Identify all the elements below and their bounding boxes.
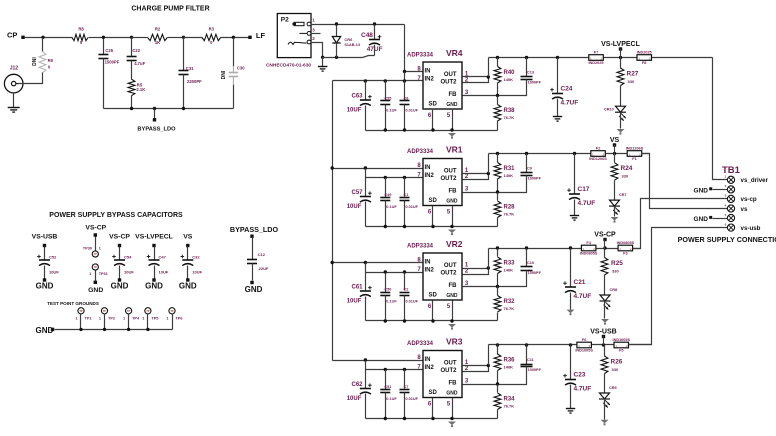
capacitor C51 0.1UF — [380, 385, 397, 401]
junction P2 ground — [321, 56, 324, 59]
junction VR4 IN — [403, 70, 406, 73]
svg-text:4.7UF: 4.7UF — [574, 386, 592, 393]
test point TP5 — [145, 308, 151, 314]
wire VR1 GND pin5 — [452, 206, 454, 227]
wire C12 to GND pin — [252, 264, 254, 281]
wire rail to C11 — [526, 345, 528, 365]
wire VS-CP pin to C54 — [119, 247, 121, 261]
svg-text:GND: GND — [446, 102, 458, 108]
pin VS-USB — [602, 335, 605, 338]
svg-text:330: 330 — [628, 79, 635, 84]
wire VR2 FB — [463, 286, 498, 288]
wire BYPASS_LDO pin to C12 — [252, 238, 254, 260]
svg-text:TP: TP — [170, 309, 174, 313]
svg-text:4.7UF: 4.7UF — [561, 100, 579, 107]
svg-text:5: 5 — [447, 210, 451, 216]
wire P2 pin3 stub — [311, 33, 321, 35]
svg-text:VR1: VR1 — [446, 145, 463, 155]
svg-text:1: 1 — [75, 317, 77, 321]
svg-text:4.7UF: 4.7UF — [578, 200, 596, 207]
fuse F7 IND2025 — [589, 55, 604, 61]
svg-text:VS-CP: VS-CP — [594, 232, 616, 239]
resistor R8 — [72, 27, 88, 46]
wire CR10 to ground — [620, 113, 622, 129]
capacitor C30 (DNI) — [221, 66, 245, 85]
junction VR2 OUT node — [487, 266, 490, 269]
fuse F4 IND0805S — [581, 245, 596, 251]
wire C23 to ground — [570, 385, 572, 409]
wire node to C22 — [131, 38, 133, 57]
svg-text:VR2: VR2 — [446, 239, 463, 249]
svg-text:1: 1 — [465, 262, 469, 268]
wire C13 down to FB — [498, 80, 527, 96]
label TP2 — [99, 317, 115, 321]
svg-text:VS: VS — [610, 137, 620, 144]
wire to R2 — [132, 37, 148, 39]
junction VR3 IN cap column — [364, 358, 367, 361]
pin number 2 VR4 — [465, 78, 469, 84]
svg-text:OUT: OUT — [444, 361, 457, 367]
svg-text:5: 5 — [725, 213, 727, 217]
pin number 5 VR3 — [447, 402, 451, 408]
ground C24 — [553, 117, 562, 122]
svg-text:TP: TP — [79, 309, 83, 313]
wire VR1 pin8 to pin7 rail — [365, 169, 367, 178]
svg-text:0.01UF: 0.01UF — [406, 300, 419, 304]
LED CR7 — [609, 200, 620, 215]
wire VR3 pin8 rail — [333, 360, 423, 362]
ground VR3 — [448, 422, 456, 428]
junction R5 bottom — [130, 107, 133, 110]
LED CR8 — [600, 295, 611, 310]
svg-text:LF: LF — [256, 31, 266, 40]
svg-text:1000PF: 1000PF — [528, 81, 542, 85]
svg-text:76.7K: 76.7K — [504, 404, 515, 409]
svg-text:C31: C31 — [186, 66, 194, 71]
wire CR8 to ground — [604, 301, 606, 319]
junction VR1 0.1uF top — [384, 176, 387, 179]
terminal TB1-1 — [727, 176, 734, 183]
junction TP1 — [79, 328, 82, 331]
resistor R33 140K — [494, 257, 515, 274]
wire CR7 to ground — [614, 207, 616, 217]
svg-text:4.7UF: 4.7UF — [574, 293, 592, 300]
node LF label — [256, 31, 266, 40]
wire VR2 output rail VS-CP — [489, 248, 641, 250]
label F8 — [642, 61, 646, 65]
junction VR1 bottom 0.1uF — [384, 225, 387, 228]
capacitor C48 47UF — [361, 32, 383, 53]
svg-text:FB: FB — [449, 380, 458, 386]
svg-text:VS-USB: VS-USB — [590, 329, 616, 336]
wire VR1 bottom ground rail — [366, 226, 498, 228]
label IND0805S left — [580, 251, 598, 255]
wire VS-LVPECL pin to C47 — [154, 247, 156, 261]
svg-text:GND: GND — [245, 285, 263, 294]
pin number 1 VR4 — [465, 71, 469, 77]
svg-text:C24: C24 — [561, 86, 573, 93]
ground P2 — [318, 67, 328, 72]
svg-text:GND: GND — [179, 282, 197, 291]
junction C31 top — [182, 36, 185, 39]
wire VR1 OUT2 — [463, 174, 489, 180]
svg-text:R34: R34 — [504, 397, 516, 403]
svg-text:BYPASS_LDO: BYPASS_LDO — [230, 225, 279, 234]
svg-text:2: 2 — [312, 36, 315, 41]
junction VR3 bottom 0.1uF — [384, 417, 387, 420]
wire TP4 to rail — [128, 314, 130, 330]
svg-text:CR8: CR8 — [610, 288, 618, 292]
ground C17 — [570, 216, 579, 221]
svg-text:R2: R2 — [155, 27, 161, 32]
svg-text:IND2025: IND2025 — [637, 50, 652, 54]
svg-text:R38: R38 — [504, 108, 516, 114]
net label VS — [610, 137, 620, 144]
junction VR4 10uF top — [364, 79, 367, 82]
junction VR2 FB node — [496, 285, 499, 288]
svg-text:6: 6 — [725, 222, 727, 226]
junction TP4 — [127, 328, 130, 331]
net label GND TB1-2 — [694, 188, 709, 195]
svg-text:1: 1 — [312, 18, 315, 23]
wire rail to R24 — [614, 154, 616, 163]
svg-text:TP: TP — [127, 309, 131, 313]
pin number 3 VR2 — [465, 281, 469, 287]
label CR9 — [609, 386, 617, 390]
svg-text:C61: C61 — [352, 285, 364, 291]
junction C24 top — [556, 56, 559, 59]
svg-text:TP6: TP6 — [176, 317, 183, 321]
svg-text:TP30: TP30 — [83, 247, 92, 251]
junction VR3 SD bottom — [431, 417, 434, 420]
svg-text:CR7: CR7 — [619, 193, 627, 197]
wire VR1 to C57 — [365, 178, 367, 197]
junction net VS-USB — [602, 343, 605, 346]
wire C61 to bottom rail — [365, 297, 367, 321]
svg-text:3: 3 — [465, 378, 469, 384]
svg-text:6: 6 — [428, 113, 432, 119]
svg-text:6: 6 — [428, 210, 432, 216]
svg-text:TEST POINT GROUNDS: TEST POINT GROUNDS — [47, 301, 99, 306]
resistor R32 76.7K — [494, 296, 515, 313]
svg-text:GND: GND — [446, 199, 458, 205]
wire VS to TB1 vs — [642, 154, 728, 209]
svg-text:R31: R31 — [504, 166, 516, 172]
wire VR4 OUT — [463, 76, 489, 78]
pin number P2-1 — [312, 18, 315, 23]
wire rail to R31 — [497, 154, 499, 163]
capacitor C63 10UF — [347, 94, 372, 114]
ground J12 — [8, 108, 20, 113]
capacitor C32 10UF — [181, 255, 203, 275]
terminal TB1-4 — [727, 205, 734, 212]
svg-text:POWER SUPPLY BYPASS CAPACITORS: POWER SUPPLY BYPASS CAPACITORS — [49, 212, 183, 219]
wire FB to R32 — [497, 287, 499, 296]
label IND0805S right — [617, 241, 635, 245]
svg-text:330: 330 — [622, 174, 629, 179]
resistor R34 76.7K — [494, 393, 515, 410]
wire C11 down to FB — [498, 367, 527, 385]
svg-text:3: 3 — [465, 186, 469, 192]
title: POWER SUPPLY CONNECTION — [678, 235, 776, 244]
label IND1206S right — [626, 146, 644, 150]
wire input to CR6 — [336, 25, 338, 37]
wire VR3 output rail VS-USB — [489, 344, 652, 346]
svg-text:ADP3334: ADP3334 — [407, 244, 434, 250]
svg-text:IND1005S: IND1005S — [613, 338, 631, 342]
svg-text:1: 1 — [123, 317, 125, 321]
label IND2025 right — [637, 50, 652, 54]
svg-text:2.1K: 2.1K — [136, 87, 145, 92]
ground C23 — [566, 409, 575, 414]
svg-text:R8: R8 — [78, 27, 84, 32]
svg-text:IN2: IN2 — [425, 365, 435, 371]
capacitor C55 0.1UF — [380, 97, 397, 113]
pin number 6 VR1 — [428, 210, 432, 216]
wire CP to R8 — [25, 37, 73, 39]
svg-text:140K: 140K — [504, 173, 514, 178]
svg-text:IND0805S: IND0805S — [580, 251, 598, 255]
fuse F8 IND2025 — [637, 55, 652, 61]
svg-text:1000PF: 1000PF — [528, 271, 542, 275]
wire VR4 FB — [463, 95, 498, 97]
wire C49 to bottom rail — [385, 201, 387, 227]
svg-text:6: 6 — [428, 402, 432, 408]
pin VS-CP testpoint — [94, 233, 97, 236]
svg-text:4: 4 — [725, 203, 727, 207]
svg-text:F3: F3 — [623, 252, 627, 256]
svg-text:SD: SD — [429, 390, 438, 396]
svg-text:GND: GND — [111, 282, 129, 291]
svg-text:F5: F5 — [619, 349, 623, 353]
wire node CP to R9 — [42, 38, 44, 52]
junction CR6 cathode node — [335, 22, 338, 25]
wire VR3 to C51 — [385, 370, 387, 390]
junction C10 top — [525, 246, 528, 249]
wire C25 node to C22 node — [104, 37, 132, 39]
wire VR4 GND pin5 — [452, 109, 454, 131]
wire VR1 IN2 to 0.01uF — [404, 178, 406, 197]
svg-text:R28: R28 — [504, 205, 516, 211]
label CNHECD470-01-630 — [266, 62, 311, 68]
pin VS-CP bypass — [118, 244, 121, 247]
capacitor C10 1000PF — [521, 261, 542, 275]
wire test point ground rail — [55, 329, 173, 331]
wire VR2 pin7 rail — [366, 272, 423, 274]
net label GND TB1-5 — [694, 216, 709, 223]
svg-text:CR6: CR6 — [344, 37, 353, 42]
svg-text:C23: C23 — [574, 372, 586, 379]
pin VS-USB bypass — [43, 244, 46, 247]
pin LF — [248, 36, 251, 39]
pin number TB1-6 — [725, 222, 727, 226]
capacitor C25 1500PF — [98, 48, 119, 65]
pin VS bypass — [186, 244, 189, 247]
wire VR3 OUT — [463, 365, 489, 367]
capacitor C1 0.01UF — [400, 193, 419, 209]
junction C31 bottom — [182, 107, 185, 110]
wire pin VS — [614, 145, 616, 154]
svg-text:1000PF: 1000PF — [528, 368, 542, 372]
pin VS — [613, 143, 616, 146]
wire VR4 output rail VS-LVPECL — [489, 57, 713, 59]
ground VR4 — [448, 133, 456, 139]
svg-text:VS-CP: VS-CP — [85, 224, 106, 231]
pin number 6 VR3 — [428, 402, 432, 408]
svg-text:2200PF: 2200PF — [187, 79, 202, 84]
title: TEST POINT GROUNDS — [47, 301, 99, 306]
pin number TB1-1 — [725, 175, 727, 179]
capacitor C9 1000PF — [521, 167, 542, 181]
net label BYPASS_LDO — [137, 127, 176, 133]
junction VR4 bottom 0.1uF — [384, 128, 387, 131]
svg-text:DNI: DNI — [32, 57, 38, 66]
wire TP2 to rail — [104, 314, 106, 330]
label CR7 — [619, 193, 627, 197]
wire VR1 SD pin6 — [432, 206, 434, 227]
net label VS bypass — [183, 233, 193, 240]
wire VR2 IN2 to 0.01uF — [404, 273, 406, 291]
wire input node to IN2 rail — [404, 72, 406, 81]
svg-text:J12: J12 — [10, 65, 19, 71]
svg-text:.22UF: .22UF — [258, 266, 269, 271]
svg-text:3: 3 — [312, 27, 315, 32]
ground VR2 — [448, 324, 456, 330]
svg-text:C32: C32 — [192, 255, 200, 260]
wire R8 to C25 node — [89, 37, 104, 39]
label vs-usb — [741, 225, 761, 232]
capacitor C23 4.7UF — [563, 372, 591, 393]
svg-text:GND: GND — [694, 188, 709, 195]
svg-text:F8: F8 — [642, 61, 646, 65]
wire VR2 GND pin5 — [452, 301, 454, 321]
junction VR2 GND bottom — [450, 319, 453, 322]
pin number 6 VR2 — [428, 304, 432, 310]
svg-text:TP: TP — [94, 252, 98, 256]
svg-text:GND: GND — [446, 391, 458, 397]
junction VR4 GND bottom — [450, 128, 453, 131]
svg-text:10UF: 10UF — [347, 299, 362, 305]
label IND2025 left — [589, 61, 604, 65]
svg-text:IN2: IN2 — [425, 173, 435, 179]
resistor R28 76.7K — [494, 201, 515, 218]
svg-text:SD: SD — [429, 293, 438, 299]
wire VR4 to C55 — [385, 81, 387, 101]
junction C30 top — [232, 36, 235, 39]
svg-text:IND1005S: IND1005S — [575, 348, 593, 352]
capacitor C61 10UF — [347, 285, 372, 305]
wire VR3 GND pin5 — [452, 398, 454, 419]
svg-text:1: 1 — [89, 272, 91, 276]
svg-text:GND: GND — [88, 287, 103, 294]
label CR8 — [610, 288, 618, 292]
wire C51 to bottom rail — [385, 393, 387, 419]
wire node to C8 — [404, 81, 406, 101]
pin number TB1-4 — [725, 203, 727, 207]
capacitor C52 10UF — [37, 255, 59, 275]
pin BYPASS_LDO — [153, 118, 156, 121]
pin number 7 VR2 — [417, 267, 421, 273]
svg-text:5: 5 — [447, 402, 451, 408]
pin number 2 VR2 — [465, 269, 469, 275]
junction VR2 IN cap column — [364, 261, 367, 264]
junction TP5 — [146, 328, 149, 331]
svg-text:OUT: OUT — [444, 169, 457, 175]
resistor R25 330 — [601, 258, 623, 276]
svg-text:TP1: TP1 — [85, 317, 92, 321]
junction net VS — [613, 152, 616, 155]
wire VS-USB pin to C52 — [44, 247, 46, 261]
net label GND C52 — [36, 282, 54, 291]
wire bottom rail of filter — [104, 108, 234, 110]
capacitor C21 4.7UF — [563, 279, 591, 300]
wire R33 to FB node — [497, 274, 499, 287]
capacitor C24 4.7UF — [550, 86, 578, 107]
svg-text:6: 6 — [428, 304, 432, 310]
ground CR9 — [601, 420, 609, 426]
svg-text:FB: FB — [449, 92, 458, 98]
svg-text:OUT: OUT — [444, 263, 457, 269]
capacitor C13 1000PF — [521, 71, 542, 85]
junction C9 top — [525, 152, 528, 155]
ground C21 — [567, 310, 575, 316]
wire GND TB1-5 — [713, 218, 728, 220]
junction net VS-CP — [603, 246, 606, 249]
pin number 8 VR2 — [417, 257, 421, 263]
capacitor C8 0.01UF — [400, 97, 419, 113]
svg-text:SD: SD — [429, 102, 438, 108]
resistor R36 140K — [494, 354, 515, 371]
wire J12 to ground — [13, 93, 15, 108]
wire VR2 to C50 — [385, 273, 387, 293]
capacitor C62 10UF — [347, 382, 372, 402]
op-amp regulator VR4 ADP3334 — [407, 48, 463, 109]
svg-text:vs-cp: vs-cp — [741, 196, 757, 203]
wire VR1 pin8 rail — [333, 168, 423, 170]
svg-text:R26: R26 — [611, 359, 623, 366]
svg-text:10UF: 10UF — [124, 270, 134, 275]
svg-text:IND0805S: IND0805S — [617, 241, 635, 245]
svg-text:10UF: 10UF — [347, 204, 362, 210]
wire C10 down to FB — [498, 271, 527, 287]
svg-text:R24: R24 — [621, 165, 633, 172]
svg-text:C50: C50 — [384, 288, 391, 292]
connector J12 — [4, 65, 23, 93]
capacitor C57 10UF — [347, 190, 372, 210]
label IND1005S right — [613, 338, 631, 342]
wire C25 to bottom rail — [103, 59, 105, 109]
svg-text:VS-LVPECL: VS-LVPECL — [601, 41, 640, 48]
wire pin VS-USB — [603, 337, 605, 345]
svg-text:GND: GND — [36, 282, 54, 291]
wire C17 to ground — [574, 200, 576, 216]
wire C50 to bottom rail — [385, 296, 387, 321]
svg-text:TP2: TP2 — [108, 317, 115, 321]
label F5 — [619, 349, 623, 353]
wire VR3 IN2 to 0.01uF — [404, 370, 406, 389]
svg-text:OUT2: OUT2 — [440, 80, 457, 86]
svg-text:FB: FB — [449, 188, 458, 194]
svg-text:vs_driver: vs_driver — [741, 177, 769, 184]
svg-text:C12: C12 — [258, 252, 266, 257]
svg-text:C30: C30 — [237, 66, 245, 71]
svg-text:CR10: CR10 — [604, 108, 614, 112]
svg-text:R32: R32 — [504, 299, 516, 305]
wire VR2 to C61 — [365, 273, 367, 291]
connector P2 CNHECD470-01-630 — [277, 14, 311, 58]
svg-text:C2: C2 — [404, 288, 409, 292]
wire rail to R26 — [604, 345, 606, 357]
